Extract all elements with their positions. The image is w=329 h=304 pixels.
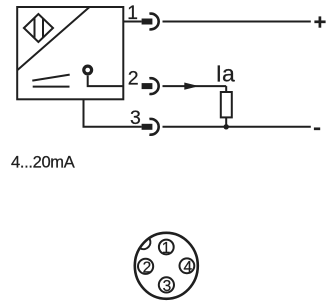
svg-text:1: 1: [162, 240, 171, 257]
svg-text:Ia: Ia: [216, 61, 235, 87]
svg-text:3: 3: [163, 278, 172, 295]
svg-text:4: 4: [183, 259, 192, 276]
svg-text:4...20mA: 4...20mA: [11, 154, 75, 172]
svg-text:3: 3: [130, 107, 141, 129]
svg-text:2: 2: [143, 259, 152, 276]
svg-text:2: 2: [128, 68, 139, 90]
svg-text:1: 1: [127, 2, 138, 24]
